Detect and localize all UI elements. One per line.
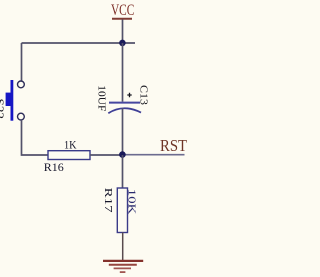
power symbol VCC bar <box>112 18 132 20</box>
wire RST net <box>122 154 184 156</box>
ground <box>103 261 143 272</box>
wire R16 to junction <box>90 154 122 156</box>
wire left rail <box>21 43 23 81</box>
pushbutton S22 <box>6 80 25 121</box>
resistor R16 <box>48 151 90 160</box>
svg-text:S22: S22 <box>0 99 5 120</box>
wire junction to R17 <box>122 155 124 188</box>
wire cap top <box>122 43 124 102</box>
svg-text:C13: C13 <box>138 85 149 105</box>
junction top <box>119 40 126 47</box>
svg-text:R16: R16 <box>44 160 64 174</box>
svg-text:10K: 10K <box>125 189 136 215</box>
wire R17 to ground <box>122 233 124 261</box>
resistor R17 <box>117 188 127 233</box>
svg-text:RST: RST <box>160 136 187 155</box>
svg-text:10UF: 10UF <box>96 85 107 111</box>
wire cap bottom <box>122 108 124 155</box>
svg-text:1K: 1K <box>64 140 77 152</box>
wire top rail <box>22 42 136 44</box>
svg-text:R17: R17 <box>102 188 113 213</box>
junction bottom <box>119 151 126 158</box>
wire switch bottom to R16 <box>22 121 49 155</box>
wire VCC stem <box>122 20 124 44</box>
svg-text:VCC: VCC <box>111 2 134 19</box>
capacitor C13 <box>108 93 141 113</box>
